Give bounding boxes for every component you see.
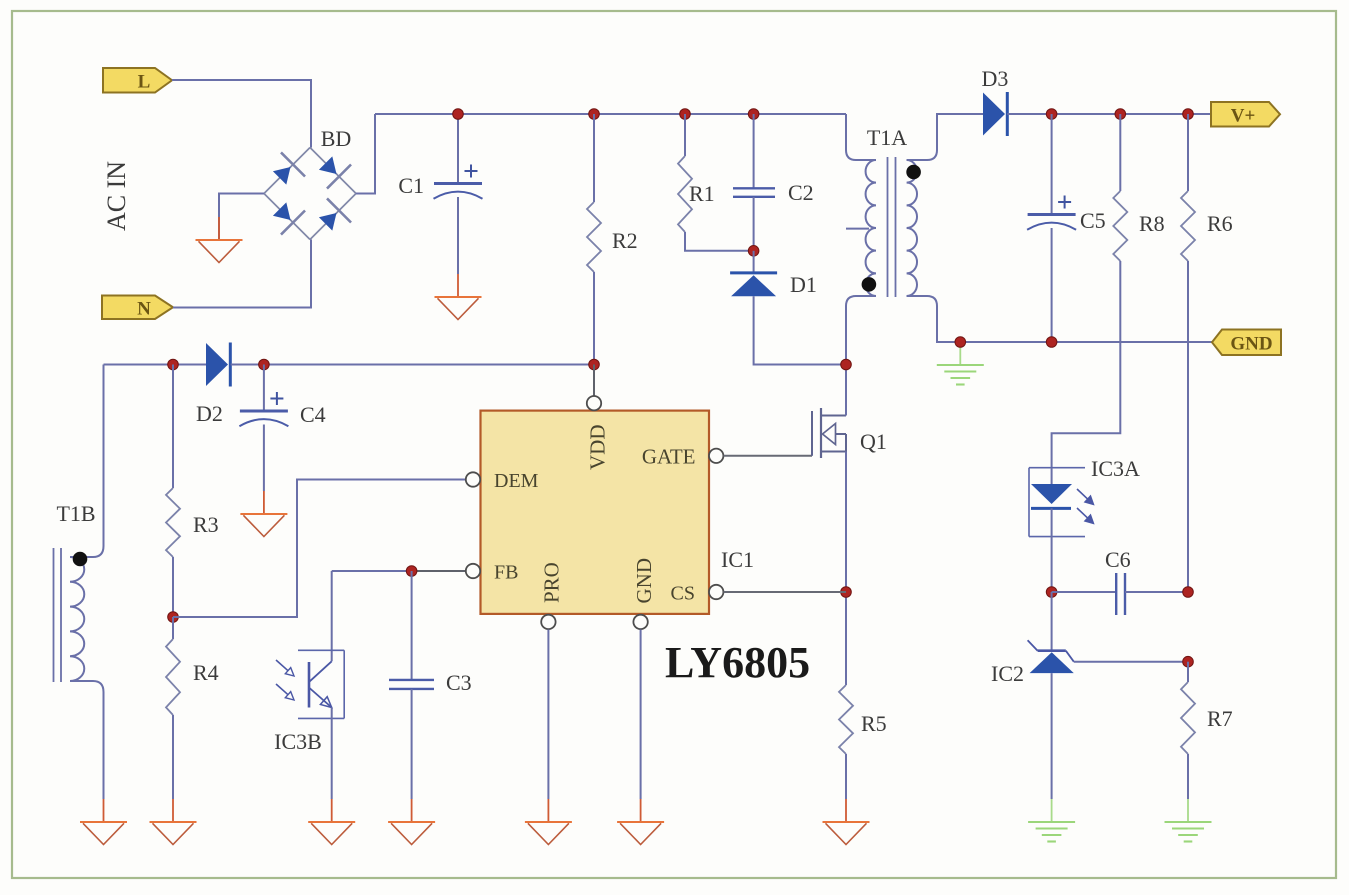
resistor R3 (166, 488, 180, 557)
ground GND pin (red) (617, 799, 664, 845)
connector V+ (1211, 102, 1280, 127)
label D2 (196, 401, 223, 426)
wire Q1 source (845, 452, 847, 686)
ground R4 (red) (150, 799, 197, 845)
T1A primary tap stub (846, 228, 869, 230)
diode D3 (983, 92, 1007, 136)
label R5 (861, 711, 887, 736)
junction bus-C1 (453, 109, 464, 120)
ground IC3B (red) (308, 799, 355, 845)
label IC2 (991, 661, 1024, 686)
capacitor C5 (1027, 196, 1076, 230)
label C2 (788, 180, 814, 205)
junction C5-GND bus (1046, 337, 1057, 348)
wire PRO pin (547, 630, 549, 800)
wire R3 bottom (172, 557, 174, 617)
resistor R7 (1181, 682, 1195, 754)
pin PRO circle (541, 615, 555, 629)
pin label PRO (540, 562, 564, 603)
svg-text:GND: GND (1230, 333, 1272, 354)
svg-text:Q1: Q1 (860, 429, 887, 454)
junction R2-VDD (589, 359, 600, 370)
label R1 (689, 181, 715, 206)
connector N (102, 296, 173, 320)
wire R1 bottom (685, 232, 754, 251)
wire D1 to drain node (754, 296, 846, 364)
wire CS (724, 591, 847, 593)
wire R2 top (593, 114, 595, 202)
resistor R6 (1181, 191, 1195, 261)
wire R5 bottom (845, 754, 847, 799)
label R2 (612, 228, 638, 253)
svg-text:C1: C1 (398, 173, 424, 198)
svg-text:C2: C2 (788, 180, 814, 205)
wire GATE to Q1 (724, 455, 813, 457)
optocoupler IC3A (LED) (1029, 468, 1094, 592)
capacitor C4 (239, 392, 288, 426)
label C1 (398, 173, 424, 198)
svg-text:D1: D1 (790, 272, 817, 297)
pin label FB (494, 562, 518, 584)
svg-text:LY6805: LY6805 (665, 638, 810, 687)
ground PRO (red) (525, 799, 572, 845)
label C5 (1080, 208, 1106, 233)
svg-text:C4: C4 (300, 402, 326, 427)
ground C3 (red) (388, 799, 435, 845)
svg-text:R5: R5 (861, 711, 887, 736)
wire C2 top (753, 114, 755, 188)
wire C6 left (1052, 591, 1116, 593)
wire C5 top (1051, 114, 1053, 215)
wire T1A primary bottom (846, 296, 876, 365)
wire VDD bus left (104, 364, 207, 366)
svg-text:BD: BD (321, 126, 352, 151)
transistor Q1 (MOSFET) (812, 408, 846, 458)
svg-text:R4: R4 (193, 660, 219, 685)
label R3 (193, 512, 219, 537)
ground IC2 (green earth) (1028, 799, 1075, 842)
label T1A (867, 125, 907, 150)
ground C1 (red) (435, 274, 482, 320)
svg-text:R3: R3 (193, 512, 219, 537)
capacitor C3 (389, 680, 434, 689)
wire R4 top (172, 617, 174, 639)
resistor R5 (839, 685, 853, 754)
resistor R4 (166, 639, 180, 715)
T1B dot (phase) (73, 552, 88, 567)
ground R7 (green earth) (1165, 799, 1212, 842)
connector L (103, 68, 172, 93)
junction R6-bus (1183, 109, 1194, 120)
wire R1 top (684, 114, 686, 156)
T1B winding (70, 557, 84, 681)
wire R7 bottom (1187, 754, 1189, 799)
resistor R2 (587, 202, 601, 272)
pin DEM circle (466, 472, 480, 486)
junction CS-source (841, 587, 852, 598)
ground C4 (red) (240, 491, 287, 537)
svg-text:IC2: IC2 (991, 661, 1024, 686)
wire C1 bottom (457, 197, 459, 274)
junction R3-R4-DEM (168, 612, 179, 623)
T1A dot secondary (phase) (906, 165, 921, 180)
svg-text:C3: C3 (446, 670, 472, 695)
svg-text:V+: V+ (1231, 105, 1256, 126)
wire C3 bottom (411, 689, 413, 799)
wire C2 bottom (753, 197, 755, 251)
svg-text:D3: D3 (982, 66, 1009, 91)
junction earth-GND bus (955, 337, 966, 348)
T1A core (888, 157, 896, 297)
label IC3A (1091, 456, 1140, 481)
junction bus-R2 (589, 109, 600, 120)
wire R4 bottom (172, 715, 174, 799)
capacitor C2 (733, 188, 775, 197)
label Q1 (860, 429, 887, 454)
wire C3 top (411, 571, 413, 680)
wire R3 top (172, 365, 174, 489)
wire C4 top (263, 365, 265, 412)
svg-text:IC1: IC1 (721, 547, 754, 572)
label D1 (790, 272, 817, 297)
label C6 (1105, 547, 1131, 572)
optocoupler IC3B (transistor) (276, 571, 344, 799)
svg-text:FB: FB (494, 562, 518, 584)
label D3 (982, 66, 1009, 91)
svg-text:PRO: PRO (540, 562, 564, 603)
capacitor C6 (1116, 573, 1125, 615)
wire C6 right (1125, 591, 1188, 593)
wire Q1 drain (845, 365, 847, 416)
junction FB-C3 (406, 566, 417, 577)
wire VDD pin (593, 365, 595, 397)
svg-text:T1B: T1B (56, 501, 95, 526)
svg-text:IC3A: IC3A (1091, 456, 1140, 481)
svg-text:C6: C6 (1105, 547, 1131, 572)
wire GND pin (640, 630, 642, 800)
junction R3 top (168, 359, 179, 370)
wire R8 top (1119, 114, 1121, 191)
wire FB (332, 570, 466, 572)
ground R5 (red) (823, 799, 870, 845)
svg-text:R1: R1 (689, 181, 715, 206)
junction bus-C2 (748, 109, 759, 120)
svg-text:R6: R6 (1207, 211, 1233, 236)
wire bridge left to ground (219, 194, 264, 241)
junction C5-bus (1046, 109, 1057, 120)
svg-text:D2: D2 (196, 401, 223, 426)
wire C1 top (457, 114, 459, 184)
label IC1 (721, 547, 754, 572)
pin label GND (632, 558, 656, 604)
label LY6805 (665, 638, 810, 687)
svg-text:N: N (137, 298, 151, 319)
resistor R1 (678, 156, 692, 232)
wire N to bridge (173, 240, 311, 308)
junction R1-C2-D1 (748, 246, 759, 257)
pin CS circle (709, 585, 723, 599)
T1A secondary winding (907, 160, 917, 296)
label R7 (1207, 706, 1233, 731)
junction R7 top (1183, 656, 1194, 667)
wire L to bridge (172, 80, 311, 148)
bridge rectifier BD (264, 148, 356, 240)
resistor R8 (1113, 191, 1127, 261)
svg-text:GND: GND (632, 558, 656, 604)
wire D3 to V+ (1007, 113, 1211, 115)
junction bus-R1 (680, 109, 691, 120)
wire T1B top (70, 365, 104, 558)
svg-text:R2: R2 (612, 228, 638, 253)
wire top bus (375, 113, 846, 115)
shunt regulator IC2 (1028, 592, 1074, 799)
diode D2 (206, 343, 230, 387)
IC U1 LY6805 body (481, 411, 710, 614)
ground earth (green) near T1A (937, 342, 984, 385)
connector GND (1212, 330, 1281, 356)
label AC IN (102, 161, 131, 231)
pin FB circle (466, 564, 480, 578)
wire R8 bottom (1052, 261, 1121, 468)
label C4 (300, 402, 326, 427)
pin VDD circle (587, 396, 601, 410)
wire T1B bottom (70, 681, 104, 799)
wire VDD bus right (231, 364, 594, 366)
wire T1A primary top (846, 114, 876, 160)
T1B core (54, 548, 62, 682)
label T1B (56, 501, 95, 526)
svg-text:R7: R7 (1207, 706, 1233, 731)
diode D1 (730, 273, 777, 296)
label IC3B (274, 729, 322, 754)
svg-text:T1A: T1A (867, 125, 907, 150)
wire C5 bottom (1051, 228, 1053, 342)
wire R6 bottom (1187, 261, 1189, 592)
svg-text:L: L (138, 71, 151, 92)
wire T1A secondary bottom (907, 296, 1212, 342)
wire bridge right to bus (356, 114, 375, 194)
junction R8-bus (1115, 109, 1126, 120)
wire D1 top (753, 251, 755, 273)
svg-text:DEM: DEM (494, 470, 539, 492)
ground T1B (red) (80, 799, 127, 845)
pin label CS (671, 583, 695, 605)
pin GATE circle (709, 449, 723, 463)
label R6 (1207, 211, 1233, 236)
wire DEM (173, 480, 465, 618)
label C3 (446, 670, 472, 695)
junction C4 top (259, 359, 270, 370)
label BD (321, 126, 352, 151)
junction IC3A-C6 (1046, 587, 1057, 598)
wire R2 bottom (593, 272, 595, 365)
pin label GATE (642, 445, 696, 469)
junction drain node (841, 359, 852, 370)
svg-text:CS: CS (671, 583, 695, 605)
ground bridge (red) (196, 217, 243, 263)
wire T1A secondary top (907, 114, 983, 160)
svg-text:R8: R8 (1139, 211, 1165, 236)
svg-text:C5: C5 (1080, 208, 1106, 233)
label R8 (1139, 211, 1165, 236)
pin GND circle (633, 615, 647, 629)
svg-text:IC3B: IC3B (274, 729, 322, 754)
capacitor C1 (434, 165, 483, 199)
pin label VDD (586, 425, 610, 471)
T1A dot primary (phase) (862, 277, 877, 292)
label R4 (193, 660, 219, 685)
wire IC2 ref to R7 (1074, 661, 1188, 663)
wire C4 bottom (263, 425, 265, 492)
svg-text:VDD: VDD (586, 425, 610, 471)
T1A primary winding (866, 160, 876, 296)
svg-text:GATE: GATE (642, 445, 696, 469)
svg-text:AC IN: AC IN (102, 161, 131, 231)
pin label DEM (494, 470, 539, 492)
wire R6 top (1187, 114, 1189, 191)
wire R7 top (1187, 662, 1189, 682)
junction C6-R6 (1183, 587, 1194, 598)
